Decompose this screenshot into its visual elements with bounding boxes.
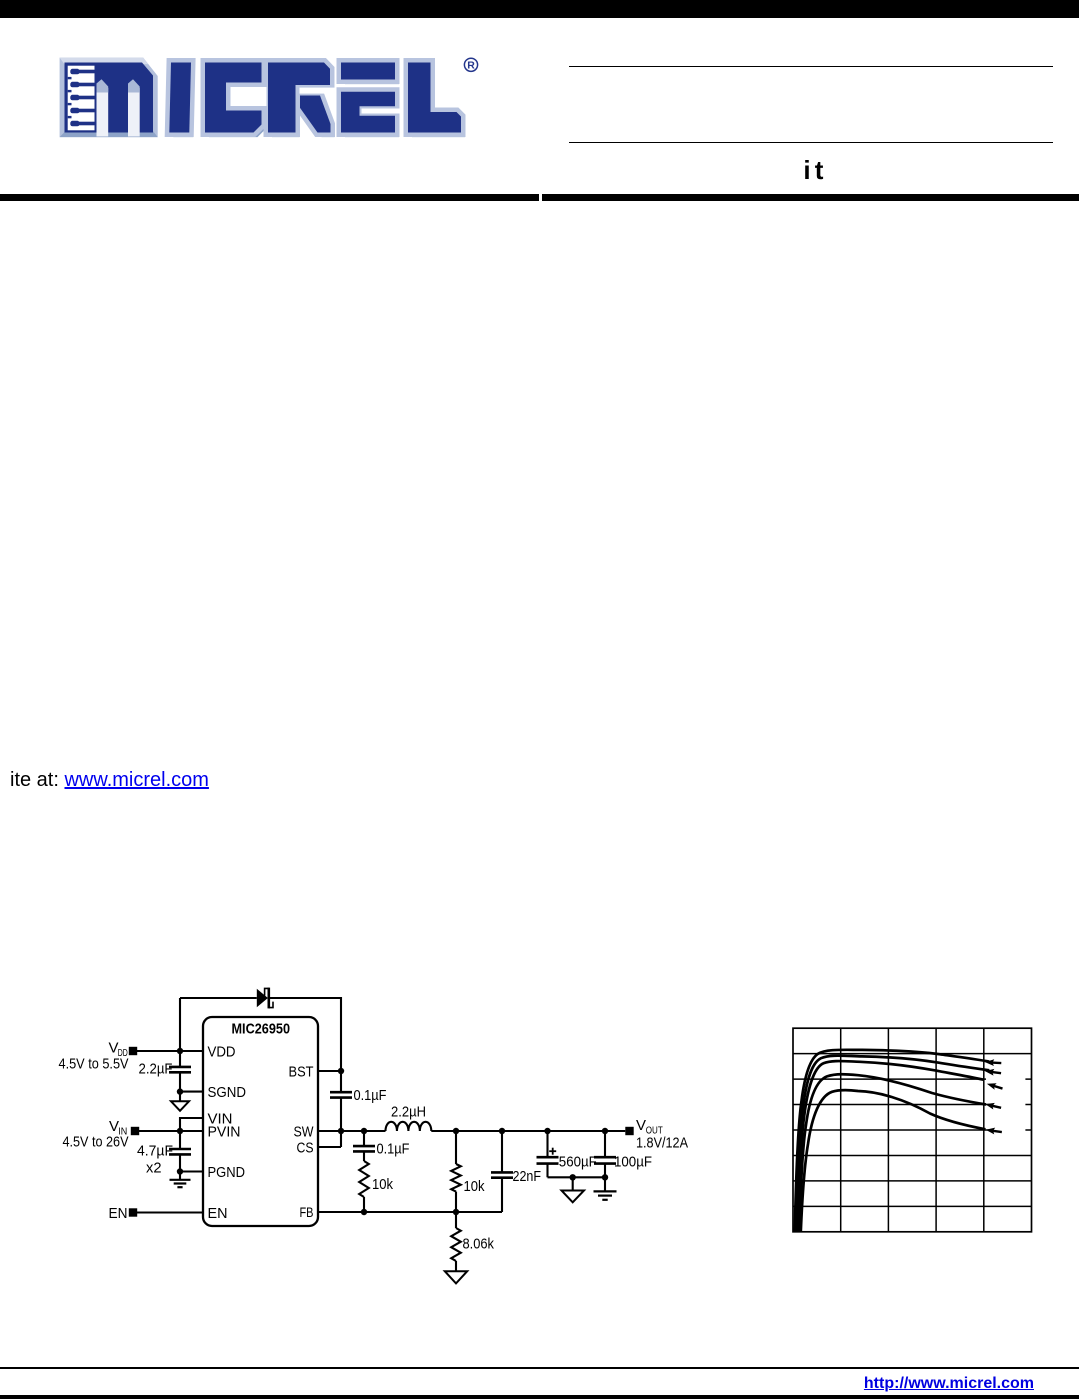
header text fragment "it" bbox=[766, 155, 866, 186]
header rule 2 bbox=[569, 142, 1053, 144]
wire FB bbox=[318, 1211, 502, 1213]
ground output triangle bbox=[562, 1177, 585, 1202]
wire EN bbox=[137, 1211, 203, 1213]
wire VDD rail vertical bbox=[179, 998, 181, 1092]
wire VDD bbox=[137, 1050, 203, 1052]
efficiency curve 3 bbox=[798, 1061, 984, 1232]
svg-text:MIC26950: MIC26950 bbox=[232, 1021, 291, 1038]
wire BST bbox=[318, 1070, 341, 1072]
footer rule bbox=[0, 1367, 1079, 1369]
svg-text:x2: x2 bbox=[146, 1160, 162, 1177]
efficiency curve 2 bbox=[796, 1056, 991, 1232]
svg-text:0.1µF: 0.1µF bbox=[377, 1141, 410, 1158]
terminal EN bbox=[129, 1208, 137, 1216]
label VDD supply bbox=[59, 1040, 129, 1073]
terminal VOUT bbox=[625, 1127, 633, 1135]
capacitor C3 0.1uF bootstrap bbox=[330, 1071, 387, 1147]
junction dots bbox=[177, 1048, 608, 1215]
curve arrow 5 bbox=[985, 1126, 1003, 1135]
capacitor C7 100uF bbox=[594, 1131, 652, 1177]
efficiency graph bbox=[793, 1028, 1032, 1232]
svg-text:SGND: SGND bbox=[208, 1084, 247, 1101]
svg-text:100µF: 100µF bbox=[614, 1153, 652, 1170]
ground PGND earth bbox=[170, 1172, 191, 1188]
resistor R2 10k bbox=[451, 1131, 485, 1212]
logo M slot 2 bbox=[128, 79, 140, 136]
capacitor C4 0.1uF ripple bbox=[353, 1131, 410, 1161]
terminal VDD bbox=[129, 1047, 137, 1055]
wire VIN pin bbox=[180, 1118, 203, 1131]
svg-text:2.2µF: 2.2µF bbox=[139, 1061, 173, 1078]
top black bar bbox=[0, 0, 1079, 18]
svg-text:PGND: PGND bbox=[208, 1164, 246, 1181]
wire PGND bbox=[180, 1170, 203, 1172]
registered trademark symbol bbox=[464, 58, 477, 71]
label VIN supply bbox=[63, 1118, 129, 1150]
MICREL logo bbox=[0, 0, 490, 155]
svg-text:560µF: 560µF bbox=[559, 1153, 597, 1170]
wire CS bbox=[318, 1146, 341, 1148]
curve arrow 1 bbox=[985, 1059, 1003, 1067]
thick divider bar right bbox=[542, 194, 1079, 201]
thick divider bar left bbox=[0, 194, 539, 201]
logo letter M body bbox=[65, 63, 154, 133]
svg-text:4.7µF: 4.7µF bbox=[137, 1143, 173, 1160]
capacitor C6 560uF bbox=[537, 1131, 597, 1177]
logo M comb (IC symbol) bbox=[68, 66, 95, 131]
svg-text:R: R bbox=[467, 60, 475, 72]
wire top bootstrap rail bbox=[180, 998, 341, 1071]
efficiency curve 4 bbox=[799, 1074, 986, 1232]
svg-text:4.5V to 5.5V: 4.5V to 5.5V bbox=[59, 1056, 129, 1073]
graph grid rows bbox=[793, 1054, 1032, 1207]
svg-text:10k: 10k bbox=[372, 1176, 393, 1193]
ground 100uF earth bbox=[594, 1177, 617, 1200]
label VOUT bbox=[636, 1117, 688, 1152]
svg-text:0.1µF: 0.1µF bbox=[354, 1087, 387, 1104]
wire PVIN bbox=[139, 1130, 203, 1132]
svg-text:4.5V to 26V: 4.5V to 26V bbox=[63, 1133, 129, 1150]
terminal VIN bbox=[131, 1127, 139, 1135]
resistor R1 10k bbox=[359, 1161, 393, 1212]
ground SGND triangle bbox=[171, 1092, 189, 1111]
ground R3 triangle bbox=[445, 1271, 467, 1283]
efficiency curve 5 bbox=[801, 1090, 986, 1232]
capacitor C1 2.2uF bbox=[139, 1061, 192, 1078]
capacitor C5 22nF bbox=[491, 1131, 541, 1212]
svg-text:8.06k: 8.06k bbox=[463, 1236, 495, 1253]
body text fragment with link bbox=[10, 769, 209, 792]
curve arrow 4 bbox=[984, 1101, 1002, 1112]
svg-text:EN: EN bbox=[208, 1205, 228, 1222]
svg-text:1.8V/12A: 1.8V/12A bbox=[636, 1135, 688, 1152]
capacitor C2 4.7uF x2 bbox=[137, 1131, 191, 1177]
footer link bbox=[734, 1375, 1034, 1393]
logo letter I bbox=[169, 63, 195, 138]
wire SGND bbox=[180, 1091, 203, 1093]
svg-text:CS: CS bbox=[297, 1140, 314, 1157]
svg-text:EN: EN bbox=[109, 1205, 128, 1222]
svg-text:22nF: 22nF bbox=[513, 1168, 542, 1185]
erased label boxes bbox=[986, 1075, 1025, 1136]
svg-text:10k: 10k bbox=[464, 1178, 485, 1195]
wire output rail bbox=[431, 1130, 625, 1132]
inductor L1 2.2uH bbox=[386, 1104, 432, 1132]
svg-text:2.2µH: 2.2µH bbox=[391, 1104, 426, 1121]
graph grid columns bbox=[841, 1028, 984, 1232]
svg-text:BST: BST bbox=[289, 1064, 314, 1081]
efficiency curve 1 bbox=[795, 1050, 991, 1232]
bottom black bar bbox=[0, 1395, 1079, 1400]
graph border bbox=[793, 1028, 1032, 1232]
logo counter whites bbox=[231, 87, 402, 114]
header rule 1 bbox=[569, 66, 1053, 68]
svg-text:V: V bbox=[636, 1117, 646, 1134]
IC U1 MIC26950 box bbox=[203, 1017, 318, 1226]
logo letter M outer bevel bbox=[60, 58, 158, 138]
logo letter R bbox=[268, 63, 335, 138]
svg-text:FB: FB bbox=[300, 1205, 314, 1220]
resistor R3 8.06k bbox=[451, 1212, 494, 1271]
wire output ground rail bbox=[548, 1176, 606, 1178]
schematic + graph SVG bbox=[0, 940, 1079, 1305]
logo M slot 1 bbox=[97, 79, 109, 136]
curve arrow 2 bbox=[984, 1068, 1002, 1077]
wire SW bbox=[318, 1130, 386, 1132]
svg-text:SW: SW bbox=[294, 1124, 315, 1141]
svg-text:VDD: VDD bbox=[208, 1044, 236, 1061]
logo letter L bbox=[408, 63, 465, 138]
svg-text:PVIN: PVIN bbox=[208, 1124, 241, 1141]
curve arrow 3 bbox=[986, 1081, 1005, 1093]
logo letter E bbox=[341, 63, 399, 138]
diode D1 schottky bbox=[257, 988, 273, 1009]
logo letter C bbox=[205, 63, 266, 138]
